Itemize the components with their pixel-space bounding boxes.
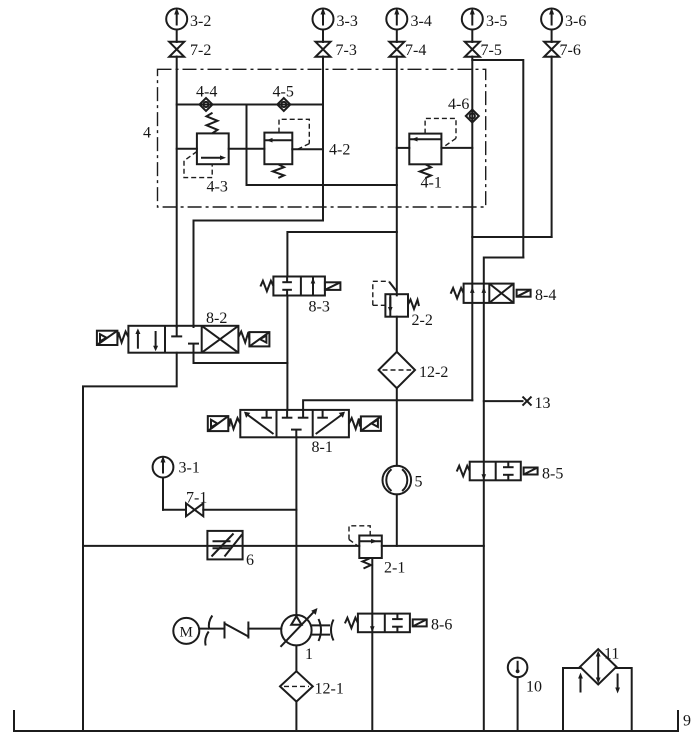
wire valve 7-5 down through 4-6 and 8-4 [471,57,473,401]
drive shaft link [199,622,281,639]
suction filter 12-1 [280,671,313,701]
svg-text:3-6: 3-6 [565,13,586,30]
svg-text:3-2: 3-2 [190,13,211,30]
wire filter 12-2 to flow meter 5 [396,388,398,466]
relief valve 2-1 [349,526,382,569]
solenoid valve 8-3 [260,277,340,296]
svg-text:8-6: 8-6 [431,617,452,634]
wire valve 7-2 down to valve 8-2 port (pressure rail P1) [176,57,178,328]
wire jog of P2 to 8-2 top port [194,221,324,328]
wire gauge 3-2 to valve 7-2 [176,30,178,43]
wire 4-3 outlet to 4-2 inlet [229,148,265,150]
svg-text:8-1: 8-1 [312,439,333,456]
wire branch at top of 7-5 line going right [472,60,523,258]
svg-text:4-5: 4-5 [273,84,294,101]
relief valve 4-1 [409,118,456,178]
wire 2-2 to filter 12-2 [396,317,398,353]
shaft coupling [205,616,212,646]
wire 8-4 bottom run to 8-1 top right port [303,400,472,410]
wire cooler 11 inlet pipe [563,668,580,731]
wire gauge 3-6 to valve 7-6 [551,30,553,43]
reducing valve 4-3 [184,113,229,178]
wire gauge 3-5 to valve 7-5 [471,30,473,43]
solenoid valve 8-6 [345,614,427,633]
wire drain line in block 4 [247,184,397,186]
tank line 9 [14,711,678,731]
wire thermometer 10 stem [517,677,519,731]
plug 13 [523,397,532,406]
directional valve 8-2 [97,326,270,353]
svg-text:6: 6 [246,552,254,569]
manifold block 4 enclosure (dash-dot) [158,69,486,207]
solenoid valve 8-5 [457,462,538,481]
svg-text:3-5: 3-5 [486,13,507,30]
cooler 11 [578,649,620,693]
svg-text:8-3: 8-3 [309,299,330,316]
pressure gauge 3-1 [153,456,174,478]
wire valve 7-3 down (rail P2) [322,57,324,221]
svg-text:4-3: 4-3 [207,179,228,196]
wire 8-2 bottom right port to 8-3/8-1 line [194,353,288,363]
flow meter 5 [383,466,412,495]
thermometer 10 [508,658,528,678]
shutoff valve 7-3 [316,42,331,57]
svg-text:2-2: 2-2 [412,312,433,329]
wire gauge 3-4 to valve 7-4 [396,30,398,43]
wire gauge 3-3 to valve 7-3 [322,30,324,43]
svg-text:8-5: 8-5 [542,466,563,483]
wire 2-1 bottom through 8-6 to tank [371,558,373,731]
wire gauge 3-1 stem [162,478,164,510]
svg-text:11: 11 [604,646,619,663]
svg-text:4: 4 [143,125,151,142]
electric motor M [173,618,199,644]
relief valve 2-2 [373,281,419,316]
wire 8-3 bottom to 8-1 top port [286,296,288,410]
wire 8-3 feed from 7-4 line [287,232,396,277]
wire 8-2 bottom left port to tank via left drop [83,353,177,731]
wire 4-2 outlet to 7-3 line [292,148,323,150]
test coupling 4-4 [200,98,213,111]
svg-text:7-3: 7-3 [336,42,357,59]
svg-text:5: 5 [415,474,423,491]
svg-text:4-6: 4-6 [448,96,469,113]
filter 12-2 [379,352,415,388]
solenoid valve 8-4 [451,284,531,303]
svg-text:9: 9 [683,713,691,730]
pressure gauge 3-4 [386,8,407,30]
svg-text:3-1: 3-1 [179,460,200,477]
svg-text:1: 1 [305,646,313,663]
wire manifold test line through 4-4 and 4-5 [177,104,323,106]
wire flow meter 5 down to low pressure line [396,494,398,546]
shutoff valve 7-6 [544,42,559,57]
wire filter 12-1 to tank [295,701,297,731]
wire valve 7-4 down to valve 2-2 [396,57,398,296]
directional valve 8-1 [208,410,381,437]
pressure gauge 3-5 [462,8,483,30]
svg-text:8-2: 8-2 [206,310,227,327]
svg-text:13: 13 [535,395,551,412]
wire stub to plug 13 [484,400,523,402]
wire cooler 11 outlet pipe [616,668,631,731]
svg-text:3-4: 3-4 [411,13,432,30]
svg-text:M: M [180,625,193,641]
variable pump 1 [281,608,334,647]
svg-text:12-2: 12-2 [419,364,448,381]
wire gauge 3-1 to valve 7-1 [163,509,186,511]
wire valve 7-1 to pump line [203,509,296,511]
svg-text:7-1: 7-1 [186,490,207,507]
wire valve 7-6 down to cross tie [551,57,553,238]
wire low pressure line left segment through component 6 [83,545,359,547]
wire 4-3 inlet [177,148,197,150]
wire return line through 8-5 down to tank [484,258,524,732]
svg-text:12-1: 12-1 [315,681,344,698]
wire 4-1 right port to 7-5 line [441,147,472,149]
svg-text:7-6: 7-6 [560,42,581,59]
shutoff valve 7-4 [389,42,404,57]
wire pump suction to filter 12-1 [295,646,297,672]
test coupling 4-6 [466,110,479,123]
wire branch from manifold down [246,105,248,186]
svg-text:2-1: 2-1 [384,560,405,577]
throttle component 6 [207,531,242,560]
relief valve 4-2 [264,119,309,178]
svg-text:4-1: 4-1 [421,175,442,192]
wire cross tie at y237 [472,236,551,238]
test coupling 4-5 [277,98,290,111]
shutoff valve 7-2 [169,42,184,57]
svg-text:7-4: 7-4 [405,42,426,59]
svg-text:10: 10 [526,679,542,696]
svg-text:4-4: 4-4 [196,84,217,101]
pressure gauge 3-2 [166,8,187,30]
svg-text:8-4: 8-4 [535,287,556,304]
shutoff valve 7-5 [465,42,480,57]
pressure gauge 3-6 [541,8,562,30]
shutoff valve 7-1 [186,503,203,516]
svg-text:3-3: 3-3 [337,13,358,30]
svg-text:4-2: 4-2 [329,142,350,159]
wire 4-1 left port to 7-4 line [397,147,410,149]
pressure gauge 3-3 [313,8,334,30]
wire low pressure line right segment to return line [382,545,484,547]
wire pump outlet up to 8-1 bottom port [295,437,297,615]
svg-text:7-2: 7-2 [190,42,211,59]
svg-text:7-5: 7-5 [481,42,502,59]
